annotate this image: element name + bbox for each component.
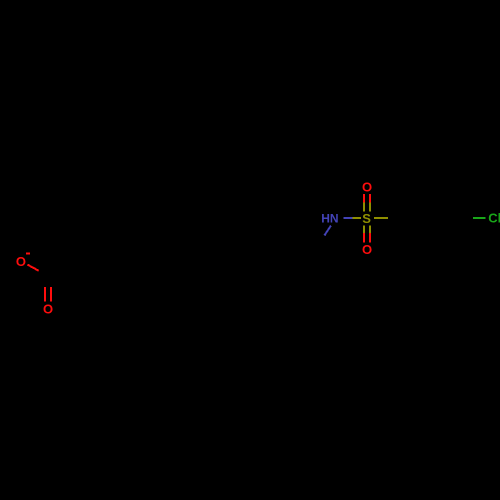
svg-text:Cl: Cl xyxy=(488,211,500,226)
svg-text:O: O xyxy=(16,254,26,269)
svg-text:O: O xyxy=(362,179,372,194)
bond N to S, sulfur half xyxy=(352,217,361,219)
C1=O double bond (red halves) xyxy=(44,287,46,302)
S=O bottom double bond, sulfur halves xyxy=(363,225,365,233)
bond O- to C1 (red half) xyxy=(27,265,38,271)
svg-text:O: O xyxy=(362,242,372,257)
svg-text:S: S xyxy=(362,211,371,226)
svg-text:HN: HN xyxy=(321,212,338,226)
svg-text:O: O xyxy=(43,302,53,317)
carboxylate minus charge xyxy=(26,253,30,255)
bond S to phenyl ipso C (sulfur half) xyxy=(374,217,388,219)
S=O top double bond, oxygen halves xyxy=(363,194,365,202)
bond N to S, nitrogen half xyxy=(343,217,352,219)
bond N to chain C (blue half) xyxy=(324,226,331,236)
S=O bottom double bond, oxygen halves xyxy=(363,233,365,242)
bond phenyl para C to Cl (chlorine half) xyxy=(473,217,485,219)
S=O top double bond, sulfur halves xyxy=(363,202,365,211)
